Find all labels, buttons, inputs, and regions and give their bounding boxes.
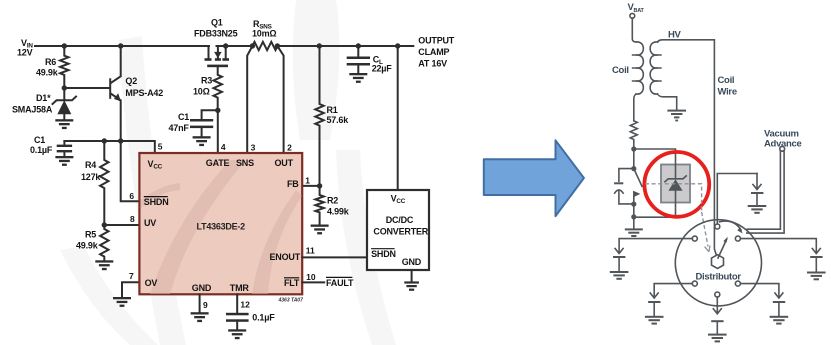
terminal upper-left bbox=[692, 236, 697, 241]
distributor body circle bbox=[675, 220, 761, 306]
ground under R2 bbox=[311, 225, 329, 235]
svg-text:LT4363DE-2: LT4363DE-2 bbox=[197, 221, 246, 231]
blue arrow between circuits bbox=[484, 140, 584, 216]
rotation arrow bbox=[720, 221, 743, 233]
svg-text:FAULT: FAULT bbox=[326, 278, 354, 288]
capacitor CL 22uF bbox=[347, 43, 393, 73]
svg-text:C1: C1 bbox=[178, 112, 189, 122]
resistor R6 bbox=[36, 46, 69, 88]
terminal top (coil wire in) bbox=[715, 224, 720, 229]
capacitor C1 47nF bbox=[169, 110, 218, 136]
svg-text:MPS-A42: MPS-A42 bbox=[125, 88, 163, 98]
svg-text:3: 3 bbox=[251, 143, 256, 153]
svg-text:SMAJ58A: SMAJ58A bbox=[12, 105, 53, 115]
wire DC/DC GND bbox=[411, 270, 413, 281]
wire UV pin 8 bbox=[104, 224, 139, 226]
capacitor condenser bbox=[614, 169, 634, 204]
node FAULT label bbox=[326, 277, 354, 288]
svg-text:Q1: Q1 bbox=[211, 18, 223, 28]
node VBAT terminal bbox=[628, 2, 645, 18]
spark plug 6 (bottom) bbox=[708, 309, 727, 343]
svg-text:0.1µF: 0.1µF bbox=[252, 313, 275, 323]
svg-text:4363 TA07: 4363 TA07 bbox=[278, 298, 304, 304]
svg-text:Distributor: Distributor bbox=[696, 272, 742, 283]
svg-text:VBAT: VBAT bbox=[628, 2, 645, 14]
switch fixed contact bbox=[633, 191, 640, 205]
resistor R4 bbox=[81, 141, 109, 225]
wire GND pin 9 bbox=[199, 294, 201, 312]
svg-text:GND: GND bbox=[402, 257, 422, 267]
wire points branch bbox=[633, 149, 635, 169]
svg-text:47nF: 47nF bbox=[169, 123, 190, 133]
inductor coil primary winding bbox=[612, 42, 643, 94]
resistor R5 bbox=[76, 225, 109, 260]
svg-text:DC/DC: DC/DC bbox=[386, 215, 414, 225]
svg-text:GATE: GATE bbox=[206, 158, 230, 168]
ground under C1 47nF bbox=[193, 136, 211, 146]
transistor Q2 MPS-A42 bbox=[110, 46, 163, 141]
svg-text:OUTPUT: OUTPUT bbox=[418, 36, 455, 46]
node junction FB/R1/R2 bbox=[317, 183, 322, 188]
inductor coil secondary winding bbox=[650, 42, 661, 94]
svg-text:4: 4 bbox=[221, 142, 226, 152]
node junction R4 top bbox=[102, 138, 107, 143]
ground under C1 0.1uF bbox=[55, 156, 73, 166]
wire upper-left terminal run bbox=[619, 239, 692, 252]
svg-text:GND: GND bbox=[192, 283, 212, 293]
svg-text:R2: R2 bbox=[327, 195, 338, 205]
wire primary bottom lead bbox=[634, 94, 636, 121]
svg-text:CLAMP: CLAMP bbox=[418, 47, 449, 57]
svg-text:8: 8 bbox=[130, 214, 135, 224]
spark plug 4 (lower left) bbox=[645, 293, 664, 325]
svg-text:49.9k: 49.9k bbox=[76, 241, 99, 251]
svg-text:TMR: TMR bbox=[230, 283, 250, 293]
spark plug 5 (lower right) bbox=[770, 293, 789, 325]
svg-text:R1: R1 bbox=[327, 105, 338, 115]
node junction condenser/points bbox=[631, 166, 636, 171]
capacitor C1 0.1uF (VCC bypass) bbox=[30, 135, 72, 156]
svg-text:SNS: SNS bbox=[236, 158, 254, 168]
ground coil secondary bbox=[667, 110, 686, 122]
resistor R1 bbox=[315, 43, 349, 186]
svg-text:SHDN: SHDN bbox=[144, 197, 169, 207]
ground under D1 bbox=[55, 119, 73, 129]
wire HV lead / coil wire bbox=[658, 30, 737, 255]
terminal lower-left bbox=[692, 281, 697, 286]
svg-text:R5: R5 bbox=[85, 230, 96, 240]
svg-text:FB: FB bbox=[287, 179, 299, 189]
ground under CL bbox=[349, 73, 367, 83]
svg-text:11: 11 bbox=[306, 246, 315, 256]
node junction R6/D1/Q2 base bbox=[62, 85, 67, 90]
wire Q2 base bbox=[64, 87, 109, 89]
ground under R5 bbox=[95, 260, 113, 270]
svg-text:4.99k: 4.99k bbox=[327, 206, 350, 216]
terminal lower-right bbox=[735, 281, 740, 286]
wire top terminal riser to plug 1 bbox=[717, 174, 757, 225]
wire ENOUT pin 11 to DC/DC bbox=[302, 256, 367, 258]
svg-text:12: 12 bbox=[240, 300, 250, 310]
svg-text:CONVERTER: CONVERTER bbox=[373, 227, 428, 237]
node junction Q2 collector/rail bbox=[118, 43, 123, 48]
resistor ballast (primary) bbox=[630, 121, 637, 149]
svg-text:OV: OV bbox=[145, 278, 158, 288]
wire DC/DC VCC supply bbox=[395, 43, 400, 190]
svg-text:10mΩ: 10mΩ bbox=[252, 29, 276, 39]
wire TVS cathode return bbox=[634, 203, 676, 218]
ground under pin 9 bbox=[191, 312, 209, 322]
svg-text:R3: R3 bbox=[201, 76, 212, 86]
svg-text:C1: C1 bbox=[34, 135, 45, 145]
wire VIN rail (left segment to Q1 drain) bbox=[35, 45, 209, 47]
wire FLT pin 10 bbox=[302, 281, 324, 283]
svg-text:ENOUT: ENOUT bbox=[270, 252, 301, 262]
svg-text:22µF: 22µF bbox=[372, 64, 393, 74]
svg-text:Advance: Advance bbox=[764, 139, 802, 150]
background watermark blades (decorative) bbox=[60, 0, 396, 345]
wire secondary bottom lead to ground bbox=[658, 94, 677, 110]
wire points to ground bbox=[633, 204, 635, 228]
wire GATE pin 4 bbox=[217, 110, 219, 153]
resistor RSNS 10mOhm bbox=[250, 19, 280, 50]
ground under DC/DC bbox=[404, 281, 419, 290]
highlight red circle bbox=[644, 152, 709, 217]
svg-text:Wire: Wire bbox=[718, 87, 737, 98]
svg-text:AT 16V: AT 16V bbox=[418, 59, 447, 69]
switch breaker points blade bbox=[634, 169, 642, 187]
ground under points bbox=[625, 228, 643, 237]
wire SHDN pin 6 bbox=[121, 141, 140, 201]
ground under OV bbox=[113, 297, 131, 307]
capacitor 0.1uF on TMR pin 12 bbox=[226, 294, 275, 329]
node junction R3/C1/GATE bbox=[215, 108, 220, 113]
svg-text:127k: 127k bbox=[81, 172, 101, 182]
svg-text:UV: UV bbox=[144, 218, 156, 228]
wire OUT kelvin to pin 2 bbox=[277, 46, 283, 153]
resistor R2 bbox=[315, 186, 349, 224]
spark plug 3 (right) bbox=[807, 249, 826, 281]
resistor R3 bbox=[193, 67, 222, 110]
node junction R4/R5/UV bbox=[102, 222, 107, 227]
wire to TVS anode bbox=[634, 149, 676, 171]
svg-text:0.1µF: 0.1µF bbox=[30, 145, 53, 155]
svg-text:Coil: Coil bbox=[612, 65, 629, 76]
svg-text:10: 10 bbox=[306, 272, 316, 282]
svg-text:2: 2 bbox=[287, 143, 292, 153]
wire output rail (Q1 source to output) bbox=[217, 45, 253, 47]
node junction TVS return bbox=[631, 214, 636, 219]
ground under TMR cap bbox=[228, 329, 246, 339]
terminal upper-right bbox=[735, 236, 740, 241]
svg-text:5: 5 bbox=[158, 142, 163, 152]
terminal bottom bbox=[715, 292, 720, 297]
svg-text:7: 7 bbox=[129, 271, 134, 281]
svg-text:SHDN: SHDN bbox=[371, 249, 396, 259]
svg-text:D1*: D1* bbox=[36, 93, 51, 103]
node vacuum advance label bbox=[764, 129, 802, 152]
svg-text:1: 1 bbox=[305, 176, 310, 186]
mosfet Q1 FDB33N25 bbox=[194, 18, 238, 68]
svg-text:12V: 12V bbox=[17, 48, 33, 58]
svg-text:FDB33N25: FDB33N25 bbox=[194, 29, 238, 39]
wire VBAT to coil primary bbox=[632, 18, 636, 42]
wire mechanical linkage (dashed) bbox=[645, 184, 710, 252]
svg-text:OUT: OUT bbox=[275, 158, 294, 168]
node junction condenser return bbox=[631, 202, 636, 207]
node VIN label bbox=[17, 38, 33, 58]
svg-text:49.9k: 49.9k bbox=[36, 68, 59, 78]
svg-text:9: 9 bbox=[203, 300, 208, 310]
node junction Q2 emitter / SHDN bbox=[118, 138, 123, 143]
diode D1 SMAJ58A (TVS) bbox=[12, 88, 76, 119]
svg-text:57.6k: 57.6k bbox=[327, 115, 350, 125]
svg-text:Coil: Coil bbox=[718, 75, 735, 86]
op-amp U2 DC/DC converter block bbox=[367, 190, 429, 270]
svg-text:6: 6 bbox=[129, 191, 134, 201]
wire upper-right terminal run bbox=[740, 239, 816, 252]
wire node VCC row bbox=[64, 141, 154, 153]
node output clamp label bbox=[418, 36, 455, 69]
svg-text:Q2: Q2 bbox=[125, 76, 137, 86]
wire vacuum advance tube (double line) bbox=[747, 151, 784, 233]
wire lower-left terminal run bbox=[654, 284, 692, 296]
wire FB pin 1 bbox=[302, 185, 319, 187]
node junction TVS top bbox=[631, 146, 636, 151]
node junction R6/rail bbox=[62, 43, 67, 48]
svg-text:R6: R6 bbox=[45, 57, 56, 67]
wire lower-right terminal run bbox=[740, 284, 779, 296]
rotor arm and hub bbox=[712, 237, 728, 269]
svg-text:HV: HV bbox=[668, 30, 682, 41]
wire bottom terminal run bbox=[716, 297, 718, 312]
wire OV pin 7 bbox=[122, 282, 139, 297]
svg-text:R4: R4 bbox=[85, 160, 96, 170]
diode TVS in protective box bbox=[661, 165, 690, 203]
op-amp U1 LT4363DE-2 (IC body) bbox=[139, 153, 303, 304]
spark plug 1 (top right) bbox=[748, 174, 767, 214]
svg-text:10Ω: 10Ω bbox=[193, 87, 210, 97]
svg-text:FLT: FLT bbox=[284, 278, 300, 288]
spark plug 2 (left) bbox=[610, 249, 629, 280]
wire SNS kelvin to pin 3 bbox=[247, 46, 252, 153]
